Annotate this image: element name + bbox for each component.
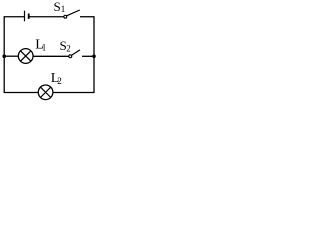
wire battery to switch S1	[30, 16, 64, 18]
wire S2 to right junction	[82, 55, 94, 57]
switch S2 pivot	[69, 55, 72, 58]
wire lamp L1 to switch S2	[33, 55, 69, 57]
wire bottom-left to lamp L2	[4, 92, 39, 94]
lamp L1 circle	[18, 49, 33, 64]
svg-text:1: 1	[42, 43, 47, 53]
wire left to lamp L1	[4, 55, 18, 57]
wire lamp L2 to bottom-right corner	[53, 92, 95, 94]
svg-text:2: 2	[66, 44, 71, 54]
svg-text:1: 1	[61, 4, 66, 14]
wire left vertical	[3, 17, 5, 93]
switch S1 blade	[67, 10, 80, 16]
node junction right	[92, 54, 96, 58]
lamp L1 cross	[21, 51, 31, 61]
switch S1 pivot	[64, 15, 67, 18]
battery BT1 long plate	[24, 11, 26, 22]
svg-text:2: 2	[57, 76, 62, 86]
svg-text:S: S	[54, 0, 61, 14]
node junction left	[2, 54, 6, 58]
wire top-left to battery	[4, 16, 24, 18]
switch S2 blade	[72, 50, 80, 55]
wire right vertical	[93, 17, 95, 93]
battery BT1 short plate	[28, 14, 30, 19]
lamp L2 cross	[40, 87, 50, 97]
wire S1 to right corner	[80, 16, 95, 18]
lamp L2 circle	[38, 85, 53, 100]
